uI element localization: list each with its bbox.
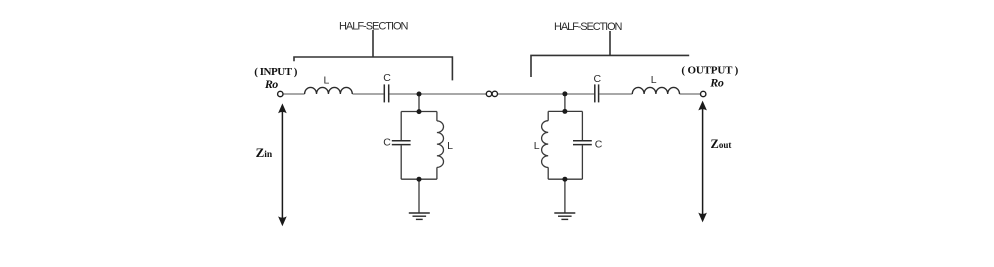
svg-text:Ro: Ro — [264, 77, 278, 91]
svg-text:C: C — [595, 139, 603, 151]
svg-text:L: L — [651, 74, 657, 86]
svg-text:Ro: Ro — [709, 75, 724, 89]
svg-text:C: C — [594, 73, 602, 85]
svg-text:C: C — [383, 72, 391, 84]
svg-text:HALF-SECTION: HALF-SECTION — [339, 21, 409, 33]
svg-text:L: L — [534, 140, 540, 152]
svg-text:Zout: Zout — [711, 137, 732, 151]
svg-text:C: C — [383, 137, 391, 149]
svg-text:L: L — [447, 140, 453, 152]
svg-text:HALF-SECTION: HALF-SECTION — [554, 21, 623, 33]
svg-text:L: L — [324, 74, 330, 86]
